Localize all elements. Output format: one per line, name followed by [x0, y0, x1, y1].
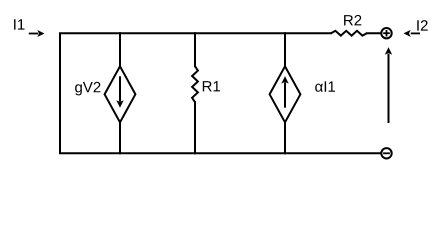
gV2 internal arrow (downward) — [116, 76, 123, 107]
resistor R1 — [192, 66, 198, 102]
wire alpha-I1 branch top — [284, 33, 286, 67]
alpha-I1 internal arrow (upward) — [281, 76, 288, 108]
resistor R2 — [331, 31, 367, 36]
resistor R2 value label — [344, 15, 361, 26]
terminal plus (port 2 top) — [381, 28, 391, 38]
wire R2 output lead — [367, 32, 381, 34]
wire top rail / left rail / bottom rail — [60, 33, 381, 153]
wire R1 branch top — [194, 33, 196, 66]
gV2 value label — [75, 82, 100, 96]
terminal minus (port 2 bottom) — [381, 148, 391, 158]
resistor R1 value label — [203, 81, 220, 91]
port current I1 arrow — [29, 30, 45, 37]
wire gV2 branch bottom — [119, 122, 121, 154]
wire alpha-I1 branch bottom — [284, 122, 286, 154]
node V2 voltage arrow (up) — [385, 47, 392, 123]
alpha-I1 value label — [315, 81, 335, 91]
wire gV2 branch top — [119, 33, 121, 67]
dependent source gV2 diamond — [105, 66, 136, 122]
dependent source alpha-I1 diamond — [270, 66, 301, 122]
port current I2 arrow — [404, 30, 421, 37]
port current I1 label — [14, 19, 24, 29]
wire R1 branch bottom — [194, 102, 196, 153]
port current I2 label — [417, 20, 427, 31]
